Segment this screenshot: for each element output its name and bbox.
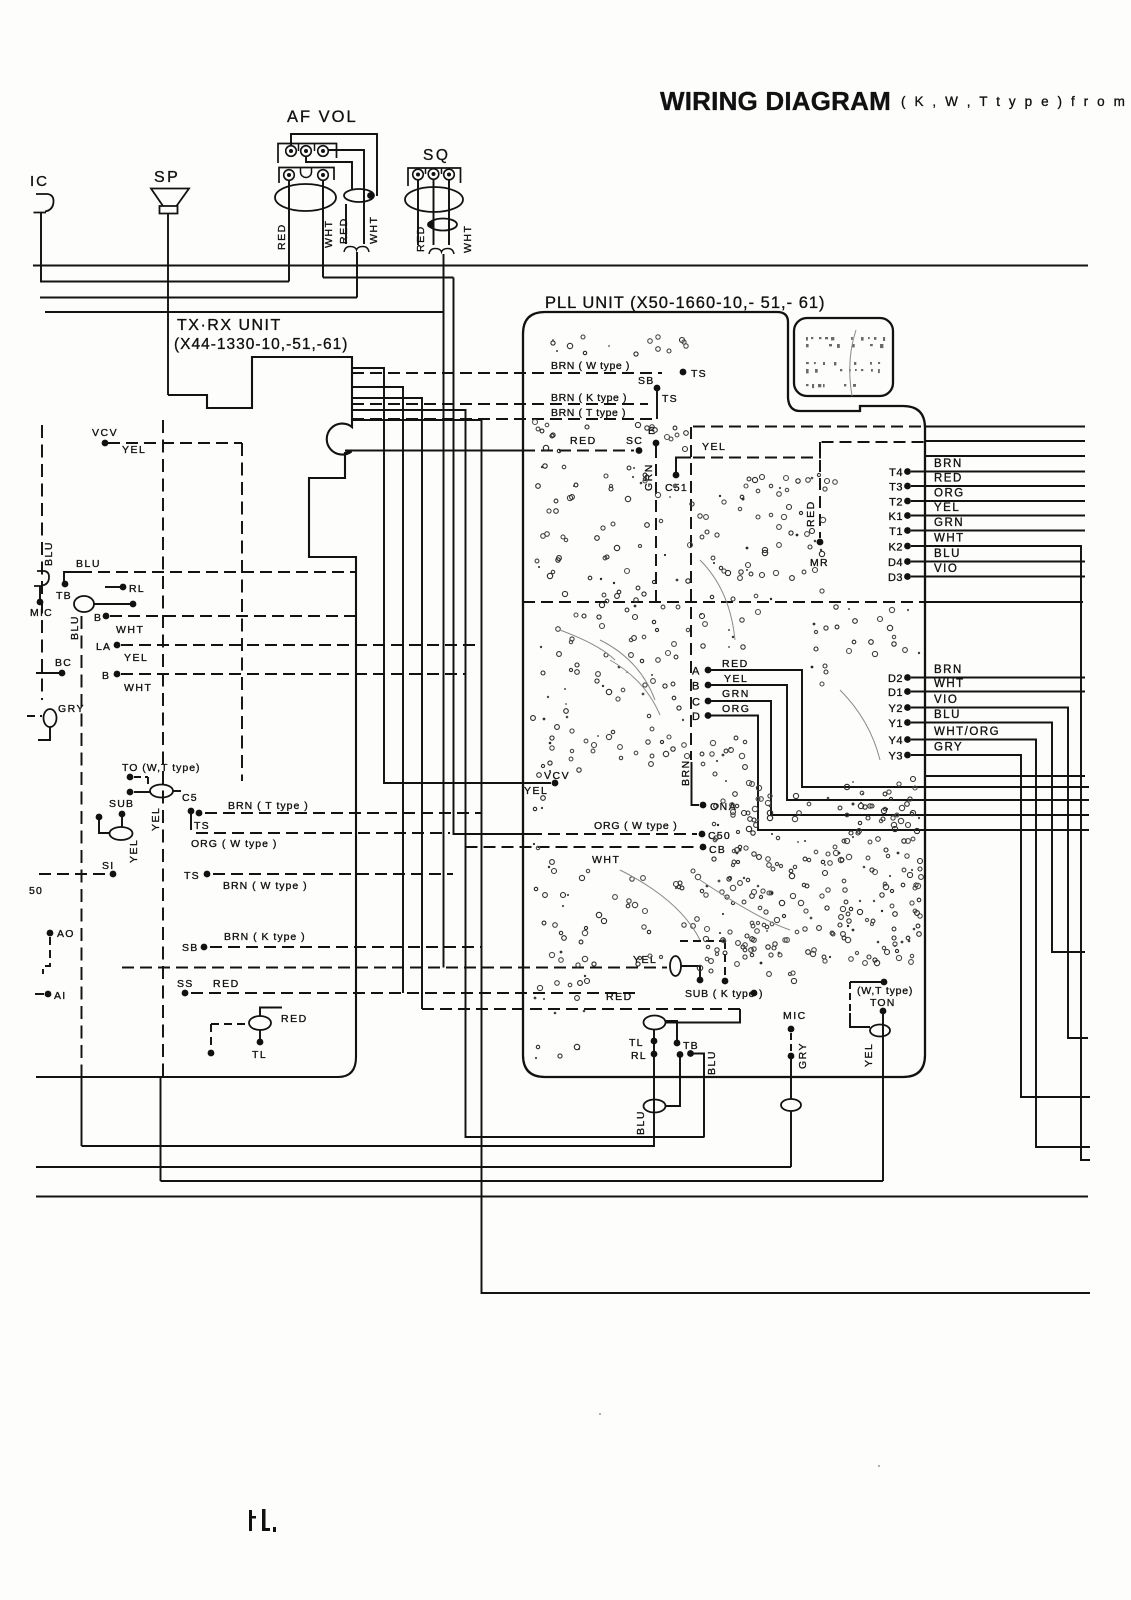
PCB pad texture [531, 335, 924, 1059]
svg-text:T4: T4 [889, 467, 903, 479]
junction RL pll [651, 1051, 658, 1058]
wire RED SC solid [345, 450, 523, 452]
wire B row1 dashed [110, 615, 356, 617]
wire SUBK bracket v dashed [724, 941, 726, 977]
svg-text:D3: D3 [888, 572, 903, 584]
svg-text:K1: K1 [889, 511, 903, 523]
svg-text:WHT/ORG: WHT/ORG [934, 726, 1000, 738]
svg-text:TX·RX UNIT: TX·RX UNIT [177, 317, 282, 334]
TX-RX unit outline [36, 357, 356, 1077]
svg-text:BRN: BRN [934, 664, 963, 676]
junction pin T4 [904, 468, 911, 475]
wire TL down [259, 1030, 261, 1040]
svg-text:TS: TS [662, 393, 678, 405]
junction BRNT row [196, 810, 203, 817]
svg-text:YEL: YEL [633, 954, 657, 966]
junction SUB a [96, 814, 103, 821]
svg-text:BRN ( W type ): BRN ( W type ) [223, 880, 308, 892]
wire exit y602 [925, 601, 1083, 603]
wire C50 dashed [530, 833, 697, 835]
svg-text:ORG: ORG [934, 488, 965, 500]
wire top dashed row [693, 426, 924, 428]
wire VCV top dashed [108, 442, 242, 444]
svg-text:VCV: VCV [544, 770, 570, 782]
svg-text:C5: C5 [182, 792, 198, 804]
connector ellipse SUB [110, 827, 133, 840]
wire lower jack down [39, 586, 41, 600]
wire SUB-YEL long dashed row [122, 967, 667, 969]
junction pin Y2 [904, 704, 911, 711]
svg-text:WHT: WHT [116, 624, 144, 636]
junction WT [881, 979, 888, 986]
junction TO b [127, 789, 134, 796]
junction CB [700, 844, 707, 851]
svg-text:D2: D2 [888, 673, 903, 685]
junction B row2 [114, 671, 121, 678]
wire SUB a [99, 820, 110, 833]
wire T3 exit [911, 485, 1085, 487]
svg-text:Y1: Y1 [889, 718, 903, 730]
svg-text:CB: CB [709, 844, 726, 856]
svg-text:GRY: GRY [797, 1042, 809, 1069]
junction TL pll [651, 1038, 658, 1045]
wire Y3 exit [911, 755, 1090, 1097]
junction SUBK label [751, 990, 758, 997]
svg-text:SB: SB [182, 942, 198, 954]
svg-text:ORG: ORG [722, 703, 750, 715]
wire LA dashed [121, 644, 481, 646]
wire D4 exit [911, 561, 1085, 563]
svg-text:TS: TS [194, 820, 210, 832]
svg-text:AO: AO [57, 928, 75, 940]
junction VCV pll [552, 780, 559, 787]
junction SB pll [654, 385, 661, 392]
wire T4 exit [911, 471, 1085, 473]
wire RL stub [105, 586, 121, 588]
junction VCV top [102, 440, 109, 447]
connector ellipse YEL pll [670, 956, 681, 976]
wire B row2 dashed [121, 673, 465, 675]
svg-text:YEL: YEL [122, 444, 146, 456]
wire WT left [850, 981, 881, 983]
faint PCB traces [560, 330, 880, 940]
junction pin D3 [904, 573, 911, 580]
svg-text:RED: RED [281, 1013, 308, 1025]
svg-text:BLU: BLU [934, 548, 961, 560]
wire SQ brace down long [443, 254, 445, 968]
junction MR [817, 539, 824, 546]
junction TB c [687, 1050, 694, 1057]
svg-text:PLL UNIT (X50-1660-10,- 51,-: PLL UNIT (X50-1660-10,- 51,- 61) [545, 294, 826, 312]
wire RED row dashed [422, 1008, 740, 1010]
wire AF VOL pin2 jog [306, 157, 352, 190]
svg-text:YEL: YEL [702, 441, 726, 453]
pin SQ p2 [428, 169, 439, 180]
wire SQ pin2 down [433, 180, 435, 245]
wire MIC down [40, 213, 42, 282]
wire TB c down [691, 1054, 705, 1138]
wire TB up [666, 1021, 677, 1043]
connector ellipse MIC [781, 1099, 801, 1111]
wire MIC to bus [790, 1111, 792, 1167]
junction TS row [204, 871, 211, 878]
wire SB vertical [656, 388, 658, 419]
wire K1 exit [911, 515, 1085, 517]
PLL unit main outline [523, 312, 925, 1077]
junction MIC low [788, 1053, 795, 1060]
svg-text:Y2: Y2 [889, 703, 903, 715]
svg-text:ORG ( W type ): ORG ( W type ) [594, 820, 678, 832]
svg-text:YEL: YEL [934, 502, 960, 514]
SQ body ellipse [405, 187, 463, 212]
svg-text:RED: RED [338, 217, 350, 244]
wire bus y277 [323, 277, 454, 279]
svg-text:SQ: SQ [423, 147, 450, 164]
wire bundle v403 [352, 387, 403, 993]
junction pin D1 [904, 688, 911, 695]
svg-text:LA: LA [96, 641, 111, 653]
svg-text:TL: TL [252, 1049, 267, 1061]
svg-text:TS: TS [184, 870, 200, 882]
wire AI stub [35, 993, 44, 995]
svg-text:D1: D1 [888, 687, 903, 699]
connector ellipse TB-left [74, 596, 94, 612]
svg-text:WHT: WHT [462, 225, 474, 253]
svg-text:BRN ( K type ): BRN ( K type ) [224, 931, 306, 943]
brace AF VOL pair [344, 247, 369, 253]
svg-text:BRN ( T type ): BRN ( T type ) [551, 407, 626, 419]
junction pin D4 [904, 558, 911, 565]
svg-text:RED: RED [722, 658, 749, 670]
svg-text:RL: RL [631, 1050, 647, 1062]
pin AF VOL row1 p1 [286, 146, 297, 157]
svg-text:B: B [102, 670, 110, 682]
svg-text:ORG ( W type ): ORG ( W type ) [191, 838, 277, 850]
svg-text:T2: T2 [889, 497, 903, 509]
wire C5 down [190, 811, 192, 830]
wire D3 exit [911, 576, 1085, 578]
wire bundle v384 VCV [352, 368, 551, 783]
svg-text:WHT: WHT [934, 533, 965, 545]
wire CB dashed [466, 846, 699, 848]
svg-text:BLU: BLU [76, 558, 101, 570]
junction E [653, 440, 660, 447]
connector AF VOL row2 middle cup [301, 168, 312, 178]
svg-text:BC: BC [55, 657, 72, 669]
junction SC [636, 447, 643, 454]
wire v704 bottom [703, 1136, 705, 1139]
junction AF VOL small ellipse [367, 192, 374, 199]
junction pin D [705, 712, 712, 719]
junction lower jack [37, 599, 44, 606]
svg-text:BRN ( W type ): BRN ( W type ) [551, 360, 630, 372]
svg-text:50: 50 [29, 885, 43, 897]
wire v453 AF-WHT to C50 [454, 278, 531, 835]
svg-text:TO (W,T type): TO (W,T type) [122, 762, 201, 774]
MIC jack symbol [34, 194, 54, 213]
wire ORG W dashed row [196, 832, 450, 834]
svg-text:C: C [692, 697, 701, 709]
svg-text:WHT: WHT [934, 678, 965, 690]
wire bottom bus long [36, 1196, 1088, 1198]
wire TB b down [666, 1057, 680, 1106]
wire bus y265 [33, 265, 1088, 267]
wire TL bracket dash v [210, 1024, 212, 1050]
connector AF VOL row1 tick A [298, 144, 300, 152]
wire BC stub [36, 672, 59, 674]
svg-text:A: A [692, 666, 700, 678]
wire C51 up [676, 458, 691, 473]
junction pin Y1 [904, 719, 911, 726]
svg-text:BRN ( T type ): BRN ( T type ) [228, 800, 309, 812]
svg-text:RED: RED [415, 225, 427, 252]
junction pin K1 [904, 512, 911, 519]
pin SQ p1 [413, 169, 424, 180]
wire pin A nested [711, 670, 1089, 787]
wire RED row to ellipse [666, 1009, 740, 1023]
svg-text:C51: C51 [665, 482, 688, 494]
wire TS dashed row [213, 873, 453, 875]
junction TB left [62, 581, 69, 588]
connector SQ tick B [441, 168, 443, 174]
wire T2 exit [911, 500, 1085, 502]
junction yel right [697, 977, 704, 984]
junction SUB b [119, 811, 126, 818]
svg-text:K2: K2 [889, 542, 903, 554]
wire bus y297 [40, 297, 357, 299]
wire bundle v465 [352, 410, 704, 1137]
svg-text:MR: MR [810, 557, 829, 569]
wire SUB b [121, 817, 123, 827]
wire bottom bus TON [161, 1180, 884, 1182]
wire TL bracket dash h [211, 1023, 247, 1025]
svg-text:VIO: VIO [934, 694, 958, 706]
junction TON [880, 1008, 887, 1015]
wire SI dashed left [39, 873, 108, 875]
junction pin B [705, 682, 712, 689]
svg-text:SS: SS [177, 978, 193, 990]
svg-text:YEL: YEL [150, 807, 162, 831]
wire T1 exit [911, 530, 1085, 532]
junction AI [45, 991, 52, 998]
wire GRN dashed vertical [655, 446, 657, 603]
svg-text:IC: IC [30, 173, 49, 190]
junction pin Y3 [904, 752, 911, 759]
wire pin B nested [711, 685, 1089, 800]
PLL sub-board outline [794, 318, 893, 396]
junction ellipse stub [130, 601, 137, 608]
connector SQ body [408, 168, 461, 186]
junction C50 [699, 831, 706, 838]
wire BLU corner [64, 572, 80, 582]
junction RL left [120, 584, 127, 591]
connector ellipse C5 [150, 785, 173, 798]
connector AF VOL row1 body [278, 144, 337, 164]
svg-text:GRN: GRN [722, 688, 750, 700]
svg-text:RED: RED [570, 435, 597, 447]
wire MR dashed vertical [819, 442, 821, 538]
pin AF VOL row1 p2 [301, 146, 312, 157]
wire WT dash v [849, 982, 851, 1013]
wire bundle v422 RED [352, 398, 422, 1009]
connector ellipse GRY [44, 709, 57, 727]
svg-text:(W,T type): (W,T type) [857, 985, 913, 997]
wire dashed row y602 [523, 601, 924, 603]
svg-text:GRY: GRY [58, 703, 85, 715]
junction SI [110, 871, 117, 878]
svg-text:MIC: MIC [30, 607, 53, 619]
wire bundle v481 long [352, 420, 1090, 1293]
wire SB dashed row [210, 946, 481, 948]
connector ellipse TL [249, 1016, 271, 1030]
wire bottom bus GRY [36, 1166, 791, 1168]
wire BLU dashed row [80, 571, 356, 573]
MIC lower jack symbol [34, 571, 49, 586]
junction SS [182, 990, 189, 997]
svg-text:WHT: WHT [368, 216, 380, 244]
dashed box v242 [241, 443, 243, 781]
junction pin C [705, 698, 712, 705]
wire SQ pin3 down [448, 180, 450, 245]
svg-text:TON: TON [870, 997, 896, 1009]
svg-text:BLU: BLU [43, 541, 55, 566]
junction pin T3 [904, 483, 911, 490]
svg-text:YEL: YEL [724, 673, 748, 685]
wire exit y426 [925, 426, 1085, 428]
svg-text:Y4: Y4 [889, 735, 903, 747]
svg-text:Y3: Y3 [889, 751, 903, 763]
wire K2 exit [911, 546, 1090, 1160]
wire AF VOL RED down [288, 181, 290, 282]
junction BC [59, 670, 66, 677]
svg-text:GRY: GRY [934, 742, 963, 754]
svg-text:AI: AI [54, 990, 66, 1002]
svg-text:RED: RED [213, 978, 240, 990]
wire RL vertical [653, 1030, 655, 1148]
svg-text:D4: D4 [888, 557, 903, 569]
svg-text:SP: SP [154, 169, 180, 186]
wire TO dash h [134, 776, 148, 778]
wire TXRX left v81 solid [81, 1077, 83, 1146]
svg-text:RED: RED [934, 473, 963, 485]
svg-text:( K , W , T t y p e ) f r o m: ( K , W , T t y p e ) f r o m [901, 94, 1127, 109]
svg-text:YEL: YEL [863, 1043, 875, 1067]
wire RED SC dashed [523, 450, 634, 452]
svg-text:WHT: WHT [592, 854, 620, 866]
junction pin D2 [904, 674, 911, 681]
pin AF VOL row2 p2 [318, 170, 329, 181]
pin AF VOL row1 p3 [318, 146, 329, 157]
pin SQ p3 [444, 169, 455, 180]
dashed box v163 long [162, 420, 164, 1077]
svg-text:SB: SB [638, 375, 654, 387]
connector AF VOL row2 body [279, 168, 334, 184]
wire bus y312 [45, 311, 444, 313]
svg-text:B: B [692, 681, 700, 693]
svg-text:B: B [94, 612, 102, 624]
junction SB row [201, 944, 208, 951]
wire SUBK bracket h dashed [680, 940, 725, 942]
svg-text:(X44-1330-10,-51,-61): (X44-1330-10,-51,-61) [174, 336, 348, 353]
dashed box v42 [41, 425, 43, 700]
junction C51 [673, 472, 680, 479]
wire TO dash v [147, 777, 149, 787]
wire GRY down-left [38, 727, 50, 740]
wire dashed vertical x691 [690, 427, 692, 760]
svg-text:SC: SC [626, 435, 643, 447]
connector AF VOL row1 tick B [314, 144, 316, 152]
wire AO dashed [43, 937, 50, 974]
junction TS arrow [680, 369, 687, 376]
wire SP down / TX-RX left edge [167, 214, 169, 396]
AF VOL body ellipse [275, 184, 336, 211]
svg-text:SI: SI [102, 860, 114, 872]
connector ellipse RED pll [644, 1016, 666, 1030]
wire AF VOL pin3 [329, 150, 365, 244]
svg-text:TL: TL [629, 1037, 644, 1049]
junction TB b [677, 1051, 684, 1058]
svg-text:SUB: SUB [109, 798, 134, 810]
svg-text:C50: C50 [708, 830, 731, 842]
SQ small ellipse [429, 219, 457, 231]
svg-text:WHT: WHT [323, 220, 335, 248]
wire AF VOL pin1 loop [291, 134, 377, 196]
wire Y4 exit [911, 740, 1090, 1148]
wire bottom bus RL [82, 1145, 655, 1147]
svg-text:RED: RED [276, 223, 288, 250]
svg-text:T1: T1 [889, 526, 903, 538]
connector ellipse TON [870, 1025, 890, 1037]
junction B row1 [103, 613, 110, 620]
dashed box v81 [81, 616, 83, 1077]
wire SQ pin1 down [417, 180, 419, 245]
junction pin K2 [904, 543, 911, 550]
junction SQ small ellipse [427, 221, 434, 228]
svg-text:BRN ( K type ): BRN ( K type ) [551, 392, 627, 404]
svg-text:BRN: BRN [680, 759, 692, 786]
junction C5 [188, 808, 195, 815]
svg-text:BRN: BRN [934, 458, 963, 470]
wire bus y281 [40, 281, 289, 283]
wire exit y441 [925, 440, 1085, 442]
junction ONA [700, 802, 707, 809]
junction TB pll [674, 1040, 681, 1047]
wire TL up-right [260, 1008, 282, 1017]
svg-text:YEL: YEL [128, 839, 140, 863]
wire BRN T dashed row [205, 812, 481, 814]
junction pin T2 [904, 498, 911, 505]
svg-text:RED: RED [805, 500, 817, 527]
wire Y1 exit [911, 723, 1085, 953]
wire exit y456 [925, 455, 1085, 457]
svg-text:VCV: VCV [92, 427, 118, 439]
svg-text:D: D [692, 711, 701, 723]
svg-text:AF VOL: AF VOL [287, 108, 358, 126]
wire AF VOL pair left [345, 204, 347, 244]
svg-text:TB: TB [56, 590, 72, 602]
wire pin C nested [711, 701, 1089, 815]
svg-text:MIC: MIC [783, 1010, 807, 1022]
junction pin T1 [904, 527, 911, 534]
junction pin Y4 [904, 736, 911, 743]
svg-text:YEL: YEL [524, 785, 548, 797]
junction TO a [127, 774, 134, 781]
junction AO [47, 930, 54, 937]
paper speck 1 [599, 1413, 601, 1415]
svg-text:WIRING DIAGRAM: WIRING DIAGRAM [660, 86, 891, 116]
wire C5 right stub [173, 790, 181, 792]
junction MIC pll [788, 1026, 795, 1033]
